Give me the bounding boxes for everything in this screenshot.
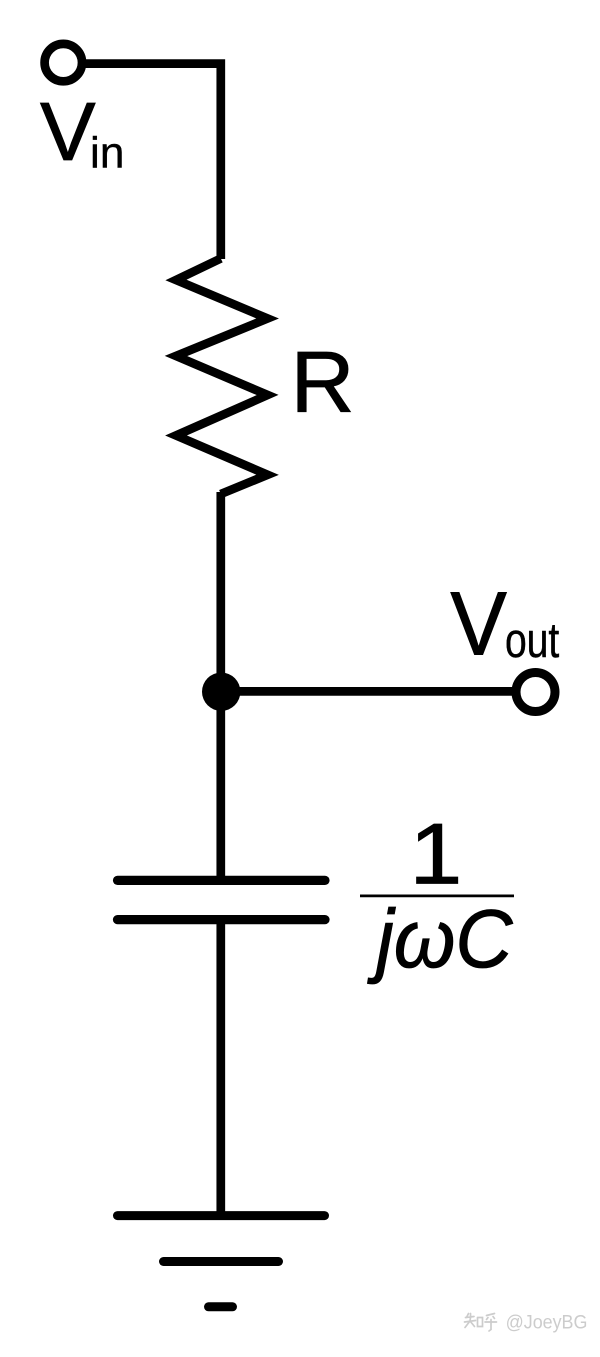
ground line 3 (bottom, shortest)	[209, 1302, 233, 1311]
watermark: 知 glyph	[465, 1314, 483, 1328]
wire: input terminal to resistor top	[82, 64, 221, 259]
svg-text:V: V	[40, 86, 96, 178]
wire: resistor to capacitor	[216, 492, 225, 882]
ground line 1 (top, widest)	[118, 1211, 325, 1220]
svg-text:jωC: jωC	[366, 893, 513, 985]
ground line 2 (middle)	[164, 1257, 279, 1266]
wire: node to output terminal	[221, 687, 513, 696]
svg-text:@JoeyBG: @JoeyBG	[506, 1311, 588, 1333]
resistor R (zigzag)	[176, 259, 268, 495]
output terminal circle (Vout port)	[516, 673, 555, 712]
capacitor top plate	[118, 876, 326, 885]
svg-text:1: 1	[409, 806, 462, 902]
wire: capacitor to ground	[216, 920, 225, 1216]
input terminal circle (Vin port)	[45, 44, 82, 81]
svg-text:in: in	[90, 129, 124, 178]
svg-text:R: R	[291, 334, 355, 431]
watermark: 乎 glyph	[485, 1314, 497, 1332]
fraction bar	[360, 895, 514, 898]
node junction dot	[202, 673, 240, 711]
svg-text:V: V	[450, 573, 507, 674]
svg-text:out: out	[505, 614, 559, 668]
capacitor bottom plate	[118, 915, 326, 924]
